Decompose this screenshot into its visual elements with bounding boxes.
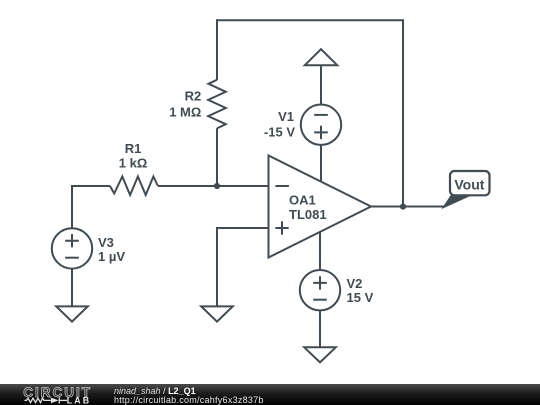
wire op-amp plus input to ground column — [217, 228, 269, 306]
svg-text:1 µV: 1 µV — [98, 249, 125, 264]
svg-text:LAB: LAB — [67, 395, 91, 405]
ground G2 — [201, 306, 233, 321]
wire right vertical (top rail down to output node) — [402, 19, 404, 206]
wire power arrow to V1 top — [320, 65, 322, 105]
svg-text:V2: V2 — [347, 276, 363, 291]
credit text — [114, 383, 414, 385]
V1 plus sign — [314, 126, 328, 139]
V1 minus sign — [314, 114, 328, 116]
wire V3 bottom to ground G1 — [71, 268, 73, 306]
V3 minus sign — [65, 257, 79, 259]
CircuitLab logo — [0, 384, 112, 405]
CircuitLab resistor-diode underline — [24, 397, 67, 403]
resistor R2 — [208, 80, 226, 129]
svg-text:V1: V1 — [278, 109, 294, 124]
wire top rail horizontal — [216, 19, 404, 21]
footer bar — [0, 384, 540, 405]
svg-text:R1: R1 — [125, 141, 142, 156]
op-amp OA1 body — [269, 156, 372, 258]
ground G1 — [56, 306, 88, 321]
V2 minus sign — [313, 299, 327, 301]
svg-text:V3: V3 — [98, 235, 114, 250]
voltage source V2 — [300, 270, 340, 310]
voltage source V1 — [301, 105, 341, 145]
op-amp plus input symbol — [275, 221, 288, 234]
Vout flag pointer — [443, 195, 470, 208]
svg-text:15 V: 15 V — [347, 290, 374, 305]
voltage source V3 — [52, 228, 92, 268]
wire V1 bottom to op-amp top edge — [320, 145, 322, 182]
wire op-amp bottom edge to V2 top — [319, 232, 321, 271]
wire R1 right to node A — [158, 185, 218, 187]
svg-text:R2: R2 — [185, 89, 202, 104]
V3 plus sign — [65, 234, 79, 247]
svg-text:Vout: Vout — [454, 177, 484, 193]
Vout flag box — [450, 171, 490, 195]
svg-text:-15 V: -15 V — [264, 124, 295, 139]
wire feedback left vertical (R2 top to top rail) — [216, 19, 218, 80]
output junction dot — [400, 204, 406, 210]
wire R2 bottom to node A — [216, 128, 218, 187]
svg-text:1 kΩ: 1 kΩ — [119, 156, 148, 171]
wire node A to op-amp minus input — [218, 185, 269, 187]
wire V3 top to R1 left — [72, 186, 110, 228]
node A junction dot — [214, 183, 220, 189]
svg-text:1 MΩ: 1 MΩ — [169, 104, 201, 119]
wire V2 bottom to ground G3 — [319, 310, 321, 347]
power arrow (V+ rail symbol) — [305, 49, 337, 65]
resistor R1 — [110, 177, 158, 196]
svg-text:OA1: OA1 — [289, 193, 316, 208]
V2 plus sign — [313, 276, 327, 289]
op-amp minus input symbol — [275, 185, 289, 187]
svg-text:TL081: TL081 — [289, 207, 327, 222]
wire op-amp output to Vout — [371, 206, 445, 208]
ground G3 — [304, 347, 336, 362]
